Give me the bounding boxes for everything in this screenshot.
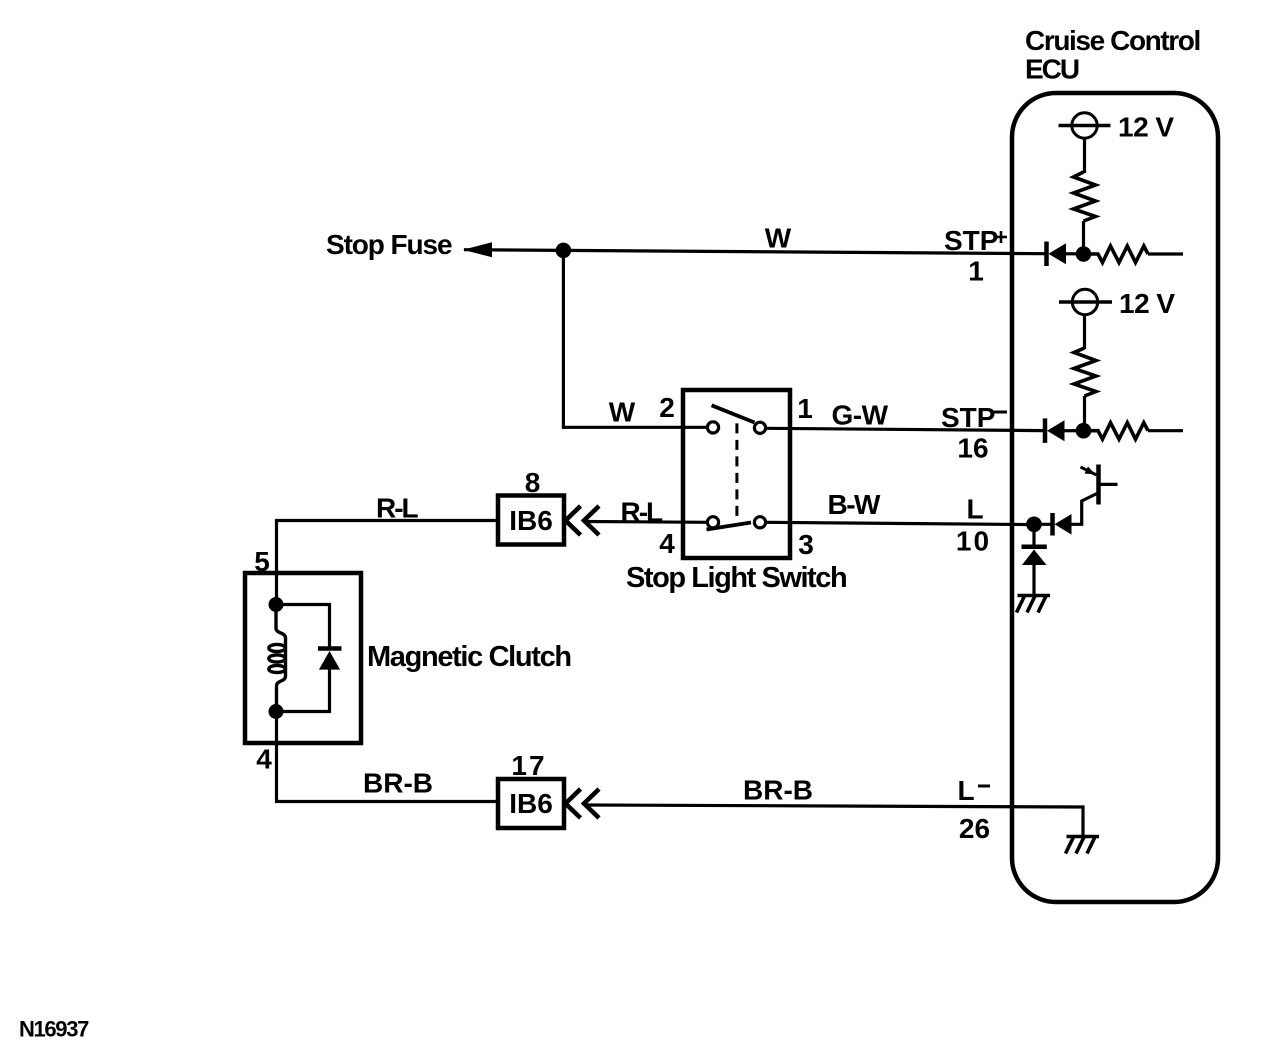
connector IB6 junction block 1 [498,496,564,545]
svg-text:IB6: IB6 [509,788,553,819]
junction stop fuse node [556,243,572,259]
svg-text:2: 2 [659,392,675,423]
switch blade lower [707,523,752,530]
junction L node [1026,517,1042,533]
ground L- branch [1066,837,1100,854]
power symbol 12V second [1059,289,1112,314]
connector chevrons 2 [566,789,600,818]
switch blade upper [712,405,755,422]
svg-text:Stop Fuse: Stop Fuse [326,229,452,260]
junction clutch pin 4 node [269,704,284,719]
svg-text:R-L: R-L [621,497,664,528]
svg-text:B-W: B-W [828,489,882,520]
resistor R3 [1074,348,1096,396]
svg-text:W: W [609,397,636,428]
ECU enclosure U1 [1012,93,1218,902]
svg-text:ECU: ECU [1025,54,1079,85]
svg-text:26: 26 [959,813,990,844]
svg-text:1: 1 [797,393,813,424]
transistor Q1 [1081,465,1118,505]
wire resistor R2 stub [1148,252,1183,255]
svg-text:IB6: IB6 [509,505,553,536]
svg-text:5: 5 [254,546,270,577]
svg-text:STP: STP [944,225,998,256]
svg-text:12 V: 12 V [1118,112,1174,143]
stop light switch box S1 [683,390,790,558]
magnetic clutch box M1 [245,573,361,743]
junction STP+ node [1076,246,1092,262]
resistor R1 [1074,172,1096,221]
wire B-W switch pin 3 to L [766,522,1035,524]
svg-text:Cruise Control: Cruise Control [1025,25,1200,56]
wire 12V to resistor R1 [1083,138,1086,173]
switch contact pin 1 [754,422,765,433]
resistor R2 [1091,246,1148,263]
svg-text:3: 3 [798,529,814,560]
svg-text:BR-B: BR-B [743,775,813,806]
svg-text:16: 16 [957,433,988,464]
svg-text:L: L [958,775,975,806]
wire R-L IB6 to switch pin 4 [586,520,707,524]
svg-text:Magnetic Clutch: Magnetic Clutch [367,641,571,673]
svg-text:4: 4 [659,528,675,559]
junction clutch pin 5 node [269,597,284,612]
resistor R4 [1091,423,1148,440]
diode D1 [1047,242,1077,267]
svg-text:1: 1 [968,256,984,287]
svg-text:G-W: G-W [832,400,889,431]
wire resistor R1 to STP+ node [1082,221,1085,254]
svg-text:BR-B: BR-B [363,768,433,799]
arrow to stop fuse [463,242,492,257]
wire G-W switch pin 1 to STP- [766,428,1044,430]
inductor clutch coil L1 [269,605,286,712]
wire W stop fuse to STP+ [464,250,1045,254]
svg-text:4: 4 [256,744,272,775]
svg-text:17: 17 [511,750,546,781]
diode D4 to ground [1022,524,1047,595]
wire resistor R4 stub [1148,429,1183,432]
diode D3 [1034,513,1072,536]
switch contact pin 2 [707,422,718,433]
switch mechanical link [735,423,738,517]
svg-text:L: L [966,494,983,525]
wire BR-B IB6 to L- terminal [586,805,1083,837]
wire W to switch pin 2 [563,426,707,429]
svg-text:STP: STP [941,402,995,433]
svg-text:W: W [765,223,792,254]
diode D2 [1045,418,1076,443]
wire D3 to transistor collector [1072,494,1098,525]
wire R-L clutch to IB6 [277,521,499,606]
svg-text:R-L: R-L [376,493,419,524]
junction STP- node [1076,423,1092,439]
svg-text:12 V: 12 V [1119,288,1175,319]
switch contact pin 3 [754,517,765,528]
svg-text:10: 10 [956,526,991,557]
svg-text:N16937: N16937 [19,1017,89,1042]
power symbol 12V B+ first [1059,113,1111,138]
diode D5 flyback [276,605,342,712]
connector chevrons 1 [566,506,600,535]
connector IB6 junction block 2 [498,779,564,828]
wire resistor R3 to STP- node [1083,396,1086,431]
wire clutch pin 4 to BR-B [277,712,499,802]
wire stop fuse branch vertical [562,250,565,429]
svg-text:Stop Light Switch: Stop Light Switch [626,562,846,594]
switch contact pin 4 [707,517,718,528]
ground transistor branch [1017,596,1051,613]
wire 12V to resistor R3 [1083,315,1086,349]
